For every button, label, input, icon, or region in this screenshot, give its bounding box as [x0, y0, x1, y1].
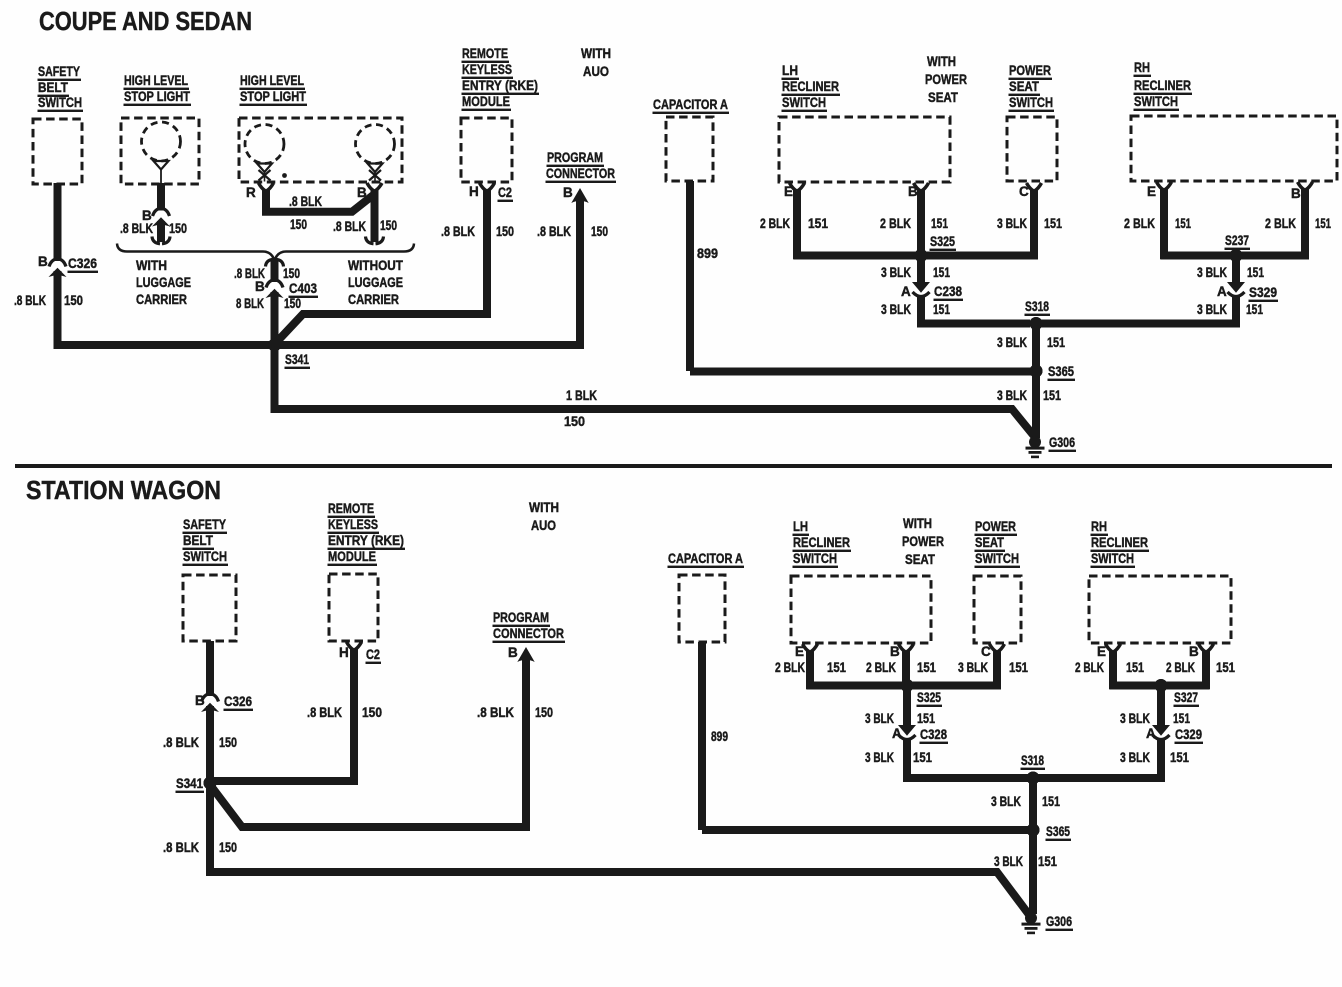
svg-text:ENTRY (RKE): ENTRY (RKE)	[462, 78, 538, 93]
pin R	[246, 183, 274, 200]
svg-text:.8 BLK: .8 BLK	[537, 224, 571, 239]
svg-text:E: E	[795, 644, 804, 659]
svg-text:S318: S318	[1025, 299, 1049, 314]
svg-text:3 BLK: 3 BLK	[865, 750, 894, 765]
svg-text:151: 151	[1038, 854, 1057, 869]
wire RH recliner E to splice S327	[1075, 651, 1210, 689]
svg-text:151: 151	[1126, 660, 1144, 675]
svg-text:C2: C2	[366, 647, 380, 662]
svg-text:CAPACITOR A: CAPACITOR A	[653, 97, 728, 112]
pin E (wagon RH)	[1097, 644, 1121, 659]
svg-text:3 BLK: 3 BLK	[881, 265, 911, 280]
svg-text:ENTRY (RKE): ENTRY (RKE)	[328, 533, 404, 548]
pin H connector C2	[469, 183, 513, 202]
svg-text:CARRIER: CARRIER	[136, 292, 187, 307]
program connector (wagon)	[493, 610, 566, 643]
svg-text:.8 BLK: .8 BLK	[163, 735, 199, 750]
svg-text:.8 BLK: .8 BLK	[333, 219, 366, 234]
wire capacitor A to splice S365 (899)	[690, 181, 1032, 372]
svg-text:HIGH LEVEL: HIGH LEVEL	[124, 73, 188, 88]
label with power seat (wagon)	[902, 516, 944, 567]
splice S325 (wagon)	[901, 679, 943, 707]
wire LH recliner B to splice S325 (wagon)	[866, 651, 936, 682]
connector C328	[892, 725, 948, 744]
svg-text:LUGGAGE: LUGGAGE	[136, 275, 191, 290]
svg-text:COUPE AND SEDAN: COUPE AND SEDAN	[39, 6, 252, 36]
svg-text:3 BLK: 3 BLK	[881, 302, 911, 317]
pin B (wagon LH)	[890, 644, 914, 659]
wire brace to C403	[234, 259, 300, 282]
svg-text:150: 150	[284, 296, 301, 311]
svg-text:LUGGAGE: LUGGAGE	[348, 275, 403, 290]
inline connector on stop light wire	[120, 208, 187, 236]
svg-text:151: 151	[1042, 794, 1060, 809]
svg-text:REMOTE: REMOTE	[462, 46, 508, 61]
wire S329 to splice S318	[1040, 296, 1263, 324]
svg-text:CAPACITOR A: CAPACITOR A	[668, 551, 743, 566]
wire power seat C to splice S325 (wagon)	[911, 651, 1028, 686]
wire S341 to ground G306 (1 BLK 150)	[275, 345, 1035, 436]
svg-text:B: B	[38, 254, 48, 269]
splice S341 (wagon)	[176, 776, 217, 793]
svg-text:STOP LIGHT: STOP LIGHT	[124, 89, 191, 104]
wire S325 to C328	[865, 686, 935, 728]
svg-text:HIGH LEVEL: HIGH LEVEL	[240, 73, 304, 88]
RH recliner switch (coupe/sedan)	[1131, 60, 1337, 181]
wire RH recliner B to splice S327	[1166, 651, 1235, 689]
wire safety belt switch to C326	[54, 183, 62, 261]
svg-text:3 BLK: 3 BLK	[1197, 302, 1227, 317]
svg-text:S341: S341	[285, 352, 309, 367]
svg-text:KEYLESS: KEYLESS	[462, 62, 512, 77]
svg-text:C326: C326	[68, 256, 97, 271]
svg-text:3 BLK: 3 BLK	[997, 216, 1027, 231]
svg-text:S327: S327	[1174, 690, 1198, 705]
svg-text:A: A	[901, 284, 911, 299]
svg-text:2 BLK: 2 BLK	[775, 660, 805, 675]
section title STATION WAGON	[26, 475, 221, 505]
svg-text:BELT: BELT	[38, 80, 69, 95]
section divider line	[15, 464, 1332, 468]
svg-text:151: 151	[1315, 216, 1331, 231]
pin B terminal	[563, 185, 589, 203]
svg-text:SEAT: SEAT	[1009, 79, 1040, 94]
svg-text:BELT: BELT	[183, 533, 214, 548]
ground G306 (coupe/sedan)	[1026, 435, 1077, 458]
svg-text:RECLINER: RECLINER	[1134, 78, 1191, 93]
svg-text:S325: S325	[930, 234, 955, 249]
capacitor A (wagon)	[668, 551, 745, 642]
wire C328 to splice S318 (wagon)	[865, 739, 1030, 778]
svg-text:899: 899	[711, 729, 728, 744]
svg-text:G306: G306	[1049, 435, 1075, 450]
wire capacitor A to splice S365 (wagon 899)	[702, 642, 1028, 830]
wire RKE module to splice S341 (wagon)	[214, 649, 382, 781]
svg-text:CARRIER: CARRIER	[348, 292, 399, 307]
svg-text:POWER: POWER	[975, 519, 1016, 534]
svg-text:151: 151	[1175, 216, 1191, 231]
svg-text:C326: C326	[224, 694, 252, 709]
svg-text:MODULE: MODULE	[462, 94, 510, 109]
svg-text:AUO: AUO	[583, 64, 609, 79]
wire S365 to ground	[997, 371, 1061, 438]
svg-text:151: 151	[931, 216, 948, 231]
wire C329 to splice S318 (wagon)	[1037, 739, 1189, 778]
svg-text:2 BLK: 2 BLK	[1166, 660, 1195, 675]
splice S365 (wagon)	[1027, 824, 1072, 842]
safety belt switch (coupe/sedan)	[33, 64, 83, 184]
svg-text:B: B	[1189, 644, 1199, 659]
svg-text:MODULE: MODULE	[328, 549, 376, 564]
svg-text:.8 BLK: .8 BLK	[307, 705, 342, 720]
wire S327 to C329	[1120, 686, 1190, 728]
svg-text:SAFETY: SAFETY	[38, 64, 80, 79]
wire RH recliner E to splice S237	[1124, 189, 1240, 259]
svg-text:S365: S365	[1046, 824, 1070, 839]
svg-text:STOP LIGHT: STOP LIGHT	[240, 89, 307, 104]
svg-text:.8 BLK: .8 BLK	[120, 221, 153, 236]
pin B	[357, 183, 382, 200]
svg-text:899: 899	[697, 246, 718, 261]
LH recliner switch (coupe/sedan)	[779, 63, 950, 182]
connector C326 (wagon)	[163, 693, 253, 750]
svg-text:S318: S318	[1021, 753, 1044, 768]
svg-text:150: 150	[64, 293, 83, 308]
svg-text:SAFETY: SAFETY	[183, 517, 226, 532]
svg-text:2 BLK: 2 BLK	[760, 216, 790, 231]
remote keyless entry RKE module (coupe/sedan)	[461, 46, 539, 182]
svg-text:RECLINER: RECLINER	[1091, 535, 1148, 550]
svg-text:SWITCH: SWITCH	[793, 551, 837, 566]
pin B (wagon RH)	[1189, 644, 1214, 659]
svg-text:150: 150	[591, 224, 608, 239]
svg-text:3 BLK: 3 BLK	[958, 660, 988, 675]
svg-text:KEYLESS: KEYLESS	[328, 517, 378, 532]
svg-text:151: 151	[1047, 335, 1065, 350]
svg-text:151: 151	[1009, 660, 1028, 675]
svg-text:151: 151	[933, 302, 950, 317]
svg-text:PROGRAM: PROGRAM	[547, 150, 603, 165]
svg-text:SWITCH: SWITCH	[1009, 95, 1053, 110]
svg-text:C: C	[1019, 184, 1029, 199]
wire S318 to S365	[997, 324, 1065, 369]
svg-text:WITH: WITH	[903, 516, 932, 531]
svg-text:POWER: POWER	[925, 72, 967, 87]
svg-text:SWITCH: SWITCH	[183, 549, 227, 564]
svg-text:8 BLK: 8 BLK	[236, 296, 264, 311]
svg-text:A: A	[1146, 726, 1156, 741]
svg-text:H: H	[339, 645, 349, 660]
svg-text:S341: S341	[176, 776, 203, 791]
pin C (wagon)	[981, 644, 1005, 659]
wire LH recliner B to splice S325	[880, 190, 948, 252]
svg-text:.8 BLK: .8 BLK	[477, 705, 514, 720]
svg-text:S237: S237	[1225, 233, 1249, 248]
wire S318 to S365 (wagon)	[991, 778, 1060, 827]
svg-text:3 BLK: 3 BLK	[997, 388, 1027, 403]
wire safety belt switch to C326 (wagon)	[206, 641, 214, 696]
svg-text:C238: C238	[934, 284, 962, 299]
splice S325 (coupe/sedan)	[915, 234, 957, 262]
svg-text:150: 150	[362, 705, 382, 720]
RH recliner switch (wagon)	[1089, 519, 1231, 643]
svg-text:C329: C329	[1175, 727, 1202, 742]
svg-text:150: 150	[564, 414, 585, 429]
svg-text:3 BLK: 3 BLK	[1120, 711, 1150, 726]
svg-text:150: 150	[535, 705, 553, 720]
svg-text:3 BLK: 3 BLK	[865, 711, 894, 726]
svg-text:CONNECTOR: CONNECTOR	[493, 626, 564, 641]
svg-text:.8 BLK: .8 BLK	[163, 840, 199, 855]
svg-text:151: 151	[808, 216, 828, 231]
svg-text:2 BLK: 2 BLK	[866, 660, 896, 675]
svg-text:S365: S365	[1048, 364, 1074, 379]
svg-text:REMOTE: REMOTE	[328, 501, 374, 516]
svg-text:RH: RH	[1091, 519, 1107, 534]
splice S318 (wagon)	[1021, 753, 1046, 785]
svg-text:C403: C403	[289, 281, 317, 296]
svg-text:151: 151	[1044, 216, 1062, 231]
remote keyless entry RKE module (wagon)	[328, 501, 406, 641]
connector S329	[1217, 282, 1278, 302]
svg-text:3 BLK: 3 BLK	[991, 794, 1021, 809]
splice S237	[1225, 233, 1251, 262]
svg-text:POWER: POWER	[902, 534, 944, 549]
svg-text:150: 150	[380, 218, 397, 233]
svg-text:151: 151	[827, 660, 846, 675]
svg-text:STATION WAGON: STATION WAGON	[26, 475, 221, 505]
svg-text:RECLINER: RECLINER	[793, 535, 850, 550]
svg-text:.8 BLK: .8 BLK	[441, 224, 475, 239]
svg-text:.8 BLK: .8 BLK	[14, 293, 46, 308]
svg-text:B: B	[1291, 186, 1301, 201]
svg-text:151: 151	[917, 660, 936, 675]
svg-text:151: 151	[1043, 388, 1061, 403]
pin E	[784, 183, 805, 199]
wire dangling end (with luggage carrier)	[152, 221, 170, 244]
label with AUO	[581, 46, 611, 79]
svg-text:B: B	[508, 645, 518, 660]
svg-text:2 BLK: 2 BLK	[1124, 216, 1155, 231]
svg-text:R: R	[246, 185, 256, 200]
pin B	[1291, 182, 1313, 201]
wire C238 to splice S318	[881, 296, 1030, 324]
svg-text:B: B	[563, 185, 573, 200]
ground G306 (wagon)	[1022, 912, 1074, 934]
wire dangling end (without luggage carrier)	[333, 190, 397, 244]
svg-text:E: E	[1147, 184, 1156, 199]
svg-text:B: B	[255, 279, 265, 294]
label with luggage carrier	[136, 258, 191, 307]
svg-text:WITH: WITH	[529, 500, 559, 515]
svg-text:SWITCH: SWITCH	[1091, 551, 1134, 566]
svg-text:AUO: AUO	[531, 518, 556, 533]
pin E	[1147, 182, 1172, 199]
wire LH recliner E to splice S325	[760, 190, 924, 259]
svg-text:3 BLK: 3 BLK	[997, 335, 1027, 350]
label without luggage carrier	[348, 258, 404, 307]
high level stop light (without luggage carrier)	[239, 73, 402, 182]
svg-text:LH: LH	[782, 63, 798, 78]
svg-text:B: B	[195, 693, 205, 708]
wire power seat C to splice S325	[917, 190, 1062, 256]
svg-text:RH: RH	[1134, 60, 1150, 75]
svg-text:B: B	[908, 184, 918, 199]
svg-text:151: 151	[1216, 660, 1235, 675]
svg-text:3 BLK: 3 BLK	[1197, 265, 1227, 280]
svg-text:WITH: WITH	[581, 46, 611, 61]
connector C403	[236, 279, 318, 311]
power seat switch (wagon)	[974, 519, 1021, 643]
svg-text:C328: C328	[920, 727, 947, 742]
svg-text:2 BLK: 2 BLK	[1265, 216, 1296, 231]
pin C	[1019, 183, 1042, 199]
svg-text:151: 151	[1246, 302, 1263, 317]
svg-text:SWITCH: SWITCH	[782, 95, 826, 110]
svg-text:RECLINER: RECLINER	[782, 79, 839, 94]
svg-text:.8 BLK: .8 BLK	[289, 194, 322, 209]
wire C326 to splice S341 (wagon)	[206, 706, 214, 783]
svg-text:WITHOUT: WITHOUT	[348, 258, 404, 273]
svg-text:E: E	[1097, 644, 1106, 659]
svg-text:POWER: POWER	[1009, 63, 1051, 78]
svg-text:2 BLK: 2 BLK	[1075, 660, 1104, 675]
svg-text:A: A	[892, 726, 902, 741]
wire RH recliner B to splice S237	[1236, 189, 1331, 256]
svg-text:150: 150	[169, 221, 187, 236]
svg-text:SEAT: SEAT	[905, 552, 936, 567]
capacitor A (coupe/sedan)	[653, 97, 730, 181]
svg-text:SWITCH: SWITCH	[975, 551, 1019, 566]
svg-text:151: 151	[1173, 711, 1190, 726]
svg-text:3 BLK: 3 BLK	[994, 854, 1023, 869]
splice S327	[1155, 679, 1200, 707]
svg-text:S329: S329	[1249, 285, 1277, 300]
svg-text:G306: G306	[1046, 914, 1072, 929]
wire stop light R to B jumper	[266, 190, 375, 232]
svg-text:151: 151	[1170, 750, 1189, 765]
label with power seat (coupe/sedan)	[925, 54, 967, 105]
wire C403 to splice S341	[271, 292, 279, 342]
svg-text:WITH: WITH	[136, 258, 167, 273]
svg-text:1 BLK: 1 BLK	[566, 388, 597, 403]
wire LH recliner E to splice S325 (wagon)	[775, 651, 999, 689]
connector C326 (coupe/sedan)	[14, 254, 98, 308]
svg-text:150: 150	[219, 735, 237, 750]
svg-text:CONNECTOR: CONNECTOR	[546, 166, 615, 181]
svg-text:SEAT: SEAT	[975, 535, 1005, 550]
LH recliner switch (wagon)	[791, 519, 931, 643]
svg-text:E: E	[784, 184, 793, 199]
high level stop light (with luggage carrier)	[121, 73, 199, 184]
connector C238	[901, 282, 963, 301]
svg-text:151: 151	[933, 265, 950, 280]
pin B terminal (wagon)	[508, 645, 535, 662]
wire RKE module to splice S341	[272, 190, 514, 347]
svg-text:3 BLK: 3 BLK	[1120, 750, 1150, 765]
svg-text:150: 150	[290, 217, 307, 232]
svg-text:151: 151	[917, 711, 935, 726]
svg-text:S325: S325	[917, 690, 941, 705]
pin H connector C2 (wagon)	[339, 642, 381, 664]
svg-text:C2: C2	[498, 185, 512, 200]
wire program connector to splice S341	[277, 200, 608, 345]
option brace	[117, 244, 414, 261]
safety belt switch (wagon)	[183, 517, 237, 641]
wire S365 to ground (wagon)	[994, 830, 1057, 914]
svg-text:LH: LH	[793, 519, 808, 534]
wire S341 to ground G306 (wagon .8 BLK 150)	[163, 783, 1030, 916]
splice junction dots (overlay)	[204, 249, 1243, 837]
svg-text:B: B	[890, 644, 900, 659]
svg-text:A: A	[1217, 284, 1227, 299]
svg-text:SWITCH: SWITCH	[38, 95, 82, 110]
svg-text:150: 150	[496, 224, 514, 239]
svg-text:150: 150	[219, 840, 237, 855]
svg-text:2 BLK: 2 BLK	[880, 216, 911, 231]
svg-text:151: 151	[1247, 265, 1264, 280]
program connector (coupe/sedan)	[546, 150, 617, 183]
svg-text:PROGRAM: PROGRAM	[493, 610, 549, 625]
wire stop light pin B	[157, 183, 165, 211]
pin B	[908, 183, 929, 199]
label with AUO (wagon)	[529, 500, 559, 533]
wire S325 to C238	[881, 256, 950, 285]
splice S365 (coupe/sedan)	[1030, 364, 1076, 381]
splice S318 (coupe/sedan)	[1025, 299, 1051, 330]
connector C329	[1146, 725, 1203, 744]
svg-text:C: C	[981, 644, 991, 659]
wire S237 to S329	[1197, 256, 1264, 285]
svg-text:SWITCH: SWITCH	[1134, 94, 1178, 109]
section title COUPE AND SEDAN	[39, 6, 252, 36]
power seat switch (coupe/sedan)	[1007, 63, 1057, 181]
splice S341 (coupe/sedan)	[268, 339, 310, 370]
svg-text:SEAT: SEAT	[928, 90, 959, 105]
svg-text:150: 150	[283, 266, 300, 281]
wire C326 to splice S341	[58, 271, 273, 345]
svg-text:151: 151	[913, 750, 932, 765]
svg-text:H: H	[469, 184, 479, 199]
wire program connector to splice S341 (wagon)	[211, 659, 553, 827]
pin E (wagon LH)	[795, 644, 818, 659]
svg-text:WITH: WITH	[927, 54, 956, 69]
